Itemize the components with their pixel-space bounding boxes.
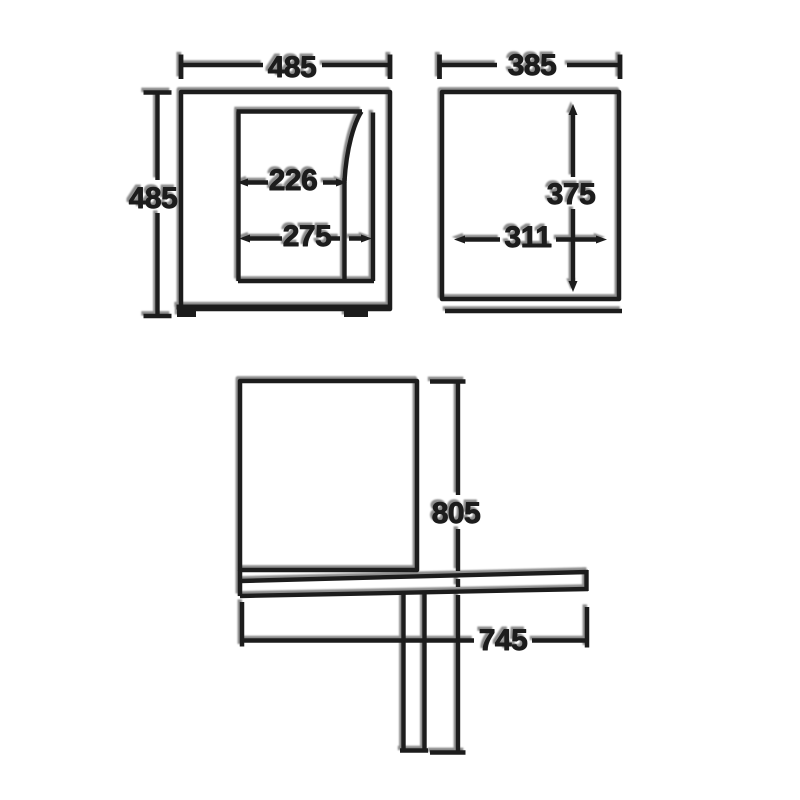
dim 311: right arrow [596,236,607,244]
dim 745: line segments [242,638,587,642]
dim 275: line segments [248,236,362,240]
front view outer rect [181,92,390,309]
dim 485 top: line segments [181,63,390,67]
front view bowl divider wall [342,178,346,279]
lower view bar top line [240,572,588,581]
lower view bar bottom line [240,589,588,596]
lower view bar left cap [238,570,243,596]
dim 485 top: right tick [388,55,393,80]
front view bowl bottom edge [238,279,374,283]
dim 226: right arrow [336,179,347,187]
dim 311: line segments [463,237,598,241]
front view bowl left and top edge [237,112,363,282]
lower view tall rect [240,381,417,570]
dim 375: line segments [571,113,575,283]
lower view pipe bottom cap [400,748,428,752]
side view base line [445,309,622,313]
lower view pipe right line [422,592,426,750]
dim 226: left arrow [237,179,248,187]
front view left foot [177,308,196,317]
dim 805: line segments [456,382,460,753]
dim 385 top: left tick [437,55,442,80]
dim 805: bottom tick [430,750,466,755]
front view bottom edge overlay [177,305,393,310]
dim 385 top: right tick [618,55,623,80]
dim 226: line segments [246,180,336,184]
dim 275: right arrow [361,235,372,243]
dim 375: up arrow [569,104,578,115]
dim 485 left: line segments [155,93,159,317]
dim 311: left arrow [454,236,465,244]
dim 485 left: bottom tick [144,314,172,319]
dim 485 left: top tick [144,90,172,95]
front view bowl chamfer diagonal [345,112,362,182]
dim 275: left arrow [239,235,250,243]
dim 805: top tick [430,379,466,384]
lower view bar right cap [584,570,588,591]
dim 485 top: left tick [179,55,184,80]
dim 375: down arrow [569,281,578,292]
front view right foot [344,308,368,317]
side view outer rect [442,92,619,299]
lower view pipe left line [401,592,405,750]
front view bowl right wall [371,113,375,282]
dim 745: left extension tick [240,602,245,647]
dim 385 top: line segments [440,63,621,67]
dim 745: right extension tick [585,607,590,648]
ghost offset copy to mimic double-print artifact [0,0,1,1]
